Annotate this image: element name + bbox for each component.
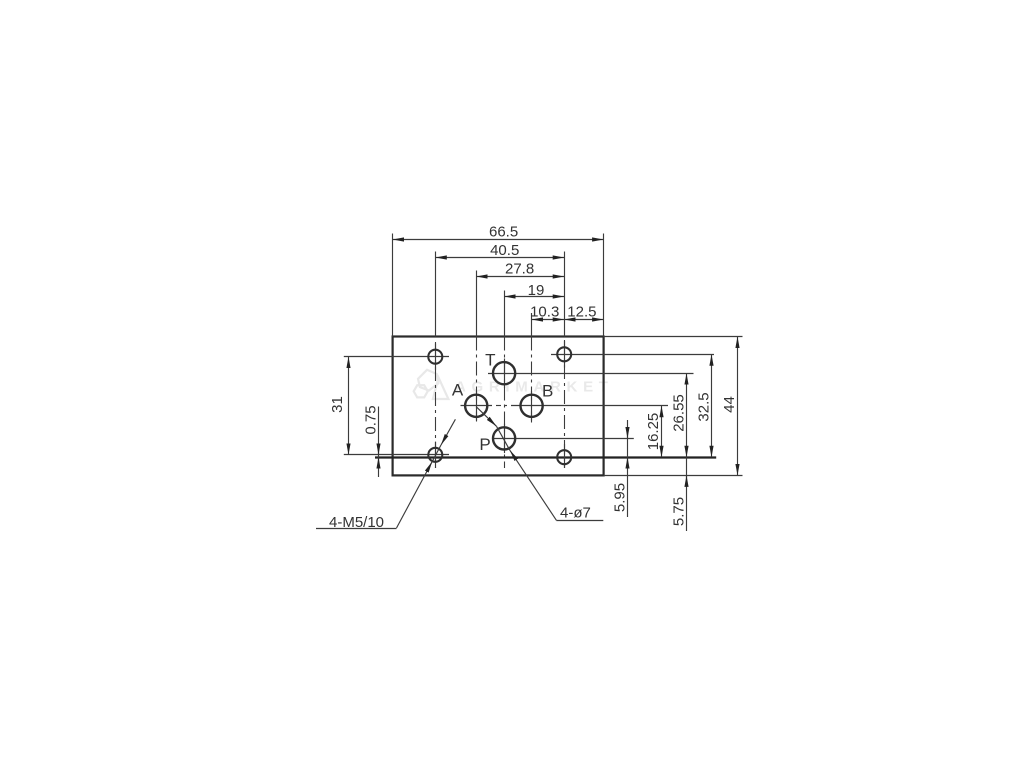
diagonal through port P	[497, 426, 510, 450]
extension line left edge	[392, 234, 394, 337]
extension line right edge	[603, 234, 605, 337]
svg-text:5.75: 5.75	[671, 497, 688, 526]
dim 31	[348, 357, 350, 455]
cross port P	[504, 424, 506, 453]
svg-text:5.95: 5.95	[611, 483, 628, 512]
dim 16.25	[661, 406, 663, 457]
svg-text:0.75: 0.75	[362, 405, 379, 434]
svg-text:P: P	[479, 435, 490, 454]
arrow at port P from A side	[476, 407, 496, 427]
dim 40.5	[435, 257, 564, 259]
svg-text:40.5: 40.5	[490, 242, 519, 259]
mounting hole bottom-left	[428, 448, 442, 462]
cross top-left hole	[435, 344, 437, 370]
svg-text:44: 44	[721, 396, 738, 413]
svg-text:10.3: 10.3	[530, 303, 559, 320]
svg-text:T: T	[485, 351, 495, 370]
cross port B	[531, 391, 533, 420]
svg-text:B: B	[542, 381, 553, 400]
centerline left hole column	[435, 342, 437, 468]
diagonal through bottom-left mounting hole	[432, 445, 441, 462]
svg-text:66.5: 66.5	[489, 224, 518, 241]
extension line left hole column	[435, 252, 437, 337]
port hole B	[521, 395, 543, 417]
leader to bottom-left mounting hole	[397, 462, 433, 529]
extension line B column	[531, 313, 533, 337]
svg-text:12.5: 12.5	[567, 303, 596, 320]
leader to port P	[510, 450, 557, 520]
cross port T	[504, 359, 506, 388]
row line bottom-right hole (dark)	[375, 456, 716, 458]
svg-text:26.55: 26.55	[671, 394, 688, 432]
arrow at bottom-left mounting hole from A side	[441, 419, 455, 445]
callout 4-M5/10 underline	[316, 528, 397, 530]
dim 5.95	[627, 420, 629, 517]
svg-text:AGRIMARKET: AGRIMARKET	[455, 378, 614, 395]
top edge extension right	[604, 336, 743, 338]
row line A B	[461, 405, 493, 407]
centerline A column	[476, 337, 478, 422]
port hole A	[465, 395, 487, 417]
bottom edge extension right	[604, 475, 743, 477]
cross top-right hole	[564, 341, 566, 367]
row line T	[488, 373, 694, 375]
cross port A	[476, 391, 478, 420]
mounting hole top-right	[557, 347, 571, 361]
centerline right hole column	[564, 340, 566, 468]
svg-text:16.25: 16.25	[645, 413, 662, 451]
callout 4-dia7 underline	[556, 520, 603, 522]
extension line right hole column	[564, 252, 566, 337]
dim 44	[737, 337, 739, 476]
svg-text:19: 19	[528, 282, 545, 299]
centerline T/P column	[504, 337, 506, 469]
dim 12.5	[564, 319, 603, 321]
svg-text:A: A	[452, 380, 464, 399]
dim 10.3	[532, 319, 565, 321]
svg-text:32.5: 32.5	[696, 392, 713, 421]
port hole T	[493, 362, 515, 384]
mounting hole top-left	[428, 350, 442, 364]
plate outline	[393, 337, 604, 476]
row line top-left holes	[344, 356, 449, 358]
svg-text:31: 31	[329, 396, 346, 413]
dim 32.5	[711, 354, 713, 457]
centerline B column	[531, 337, 533, 423]
extension line A column	[476, 271, 478, 337]
dim 66.5	[393, 239, 604, 241]
dim 5.75	[686, 457, 688, 531]
dim 26.55	[686, 373, 688, 457]
dim 0.75	[378, 407, 380, 478]
extension line T/P column	[504, 291, 506, 337]
watermark logo hexagons	[414, 370, 449, 399]
row line bottom-left holes	[344, 454, 449, 456]
dim 19	[504, 296, 564, 298]
svg-text:27.8: 27.8	[505, 261, 534, 278]
cross bottom-right hole	[564, 444, 566, 468]
row line P	[492, 438, 634, 440]
svg-text:4-ø7: 4-ø7	[560, 504, 591, 521]
mounting hole bottom-right	[557, 450, 571, 464]
cross bottom-left hole	[435, 442, 437, 468]
dim 27.8	[476, 276, 564, 278]
row line top-right hole	[551, 354, 714, 356]
port hole P	[493, 427, 515, 449]
